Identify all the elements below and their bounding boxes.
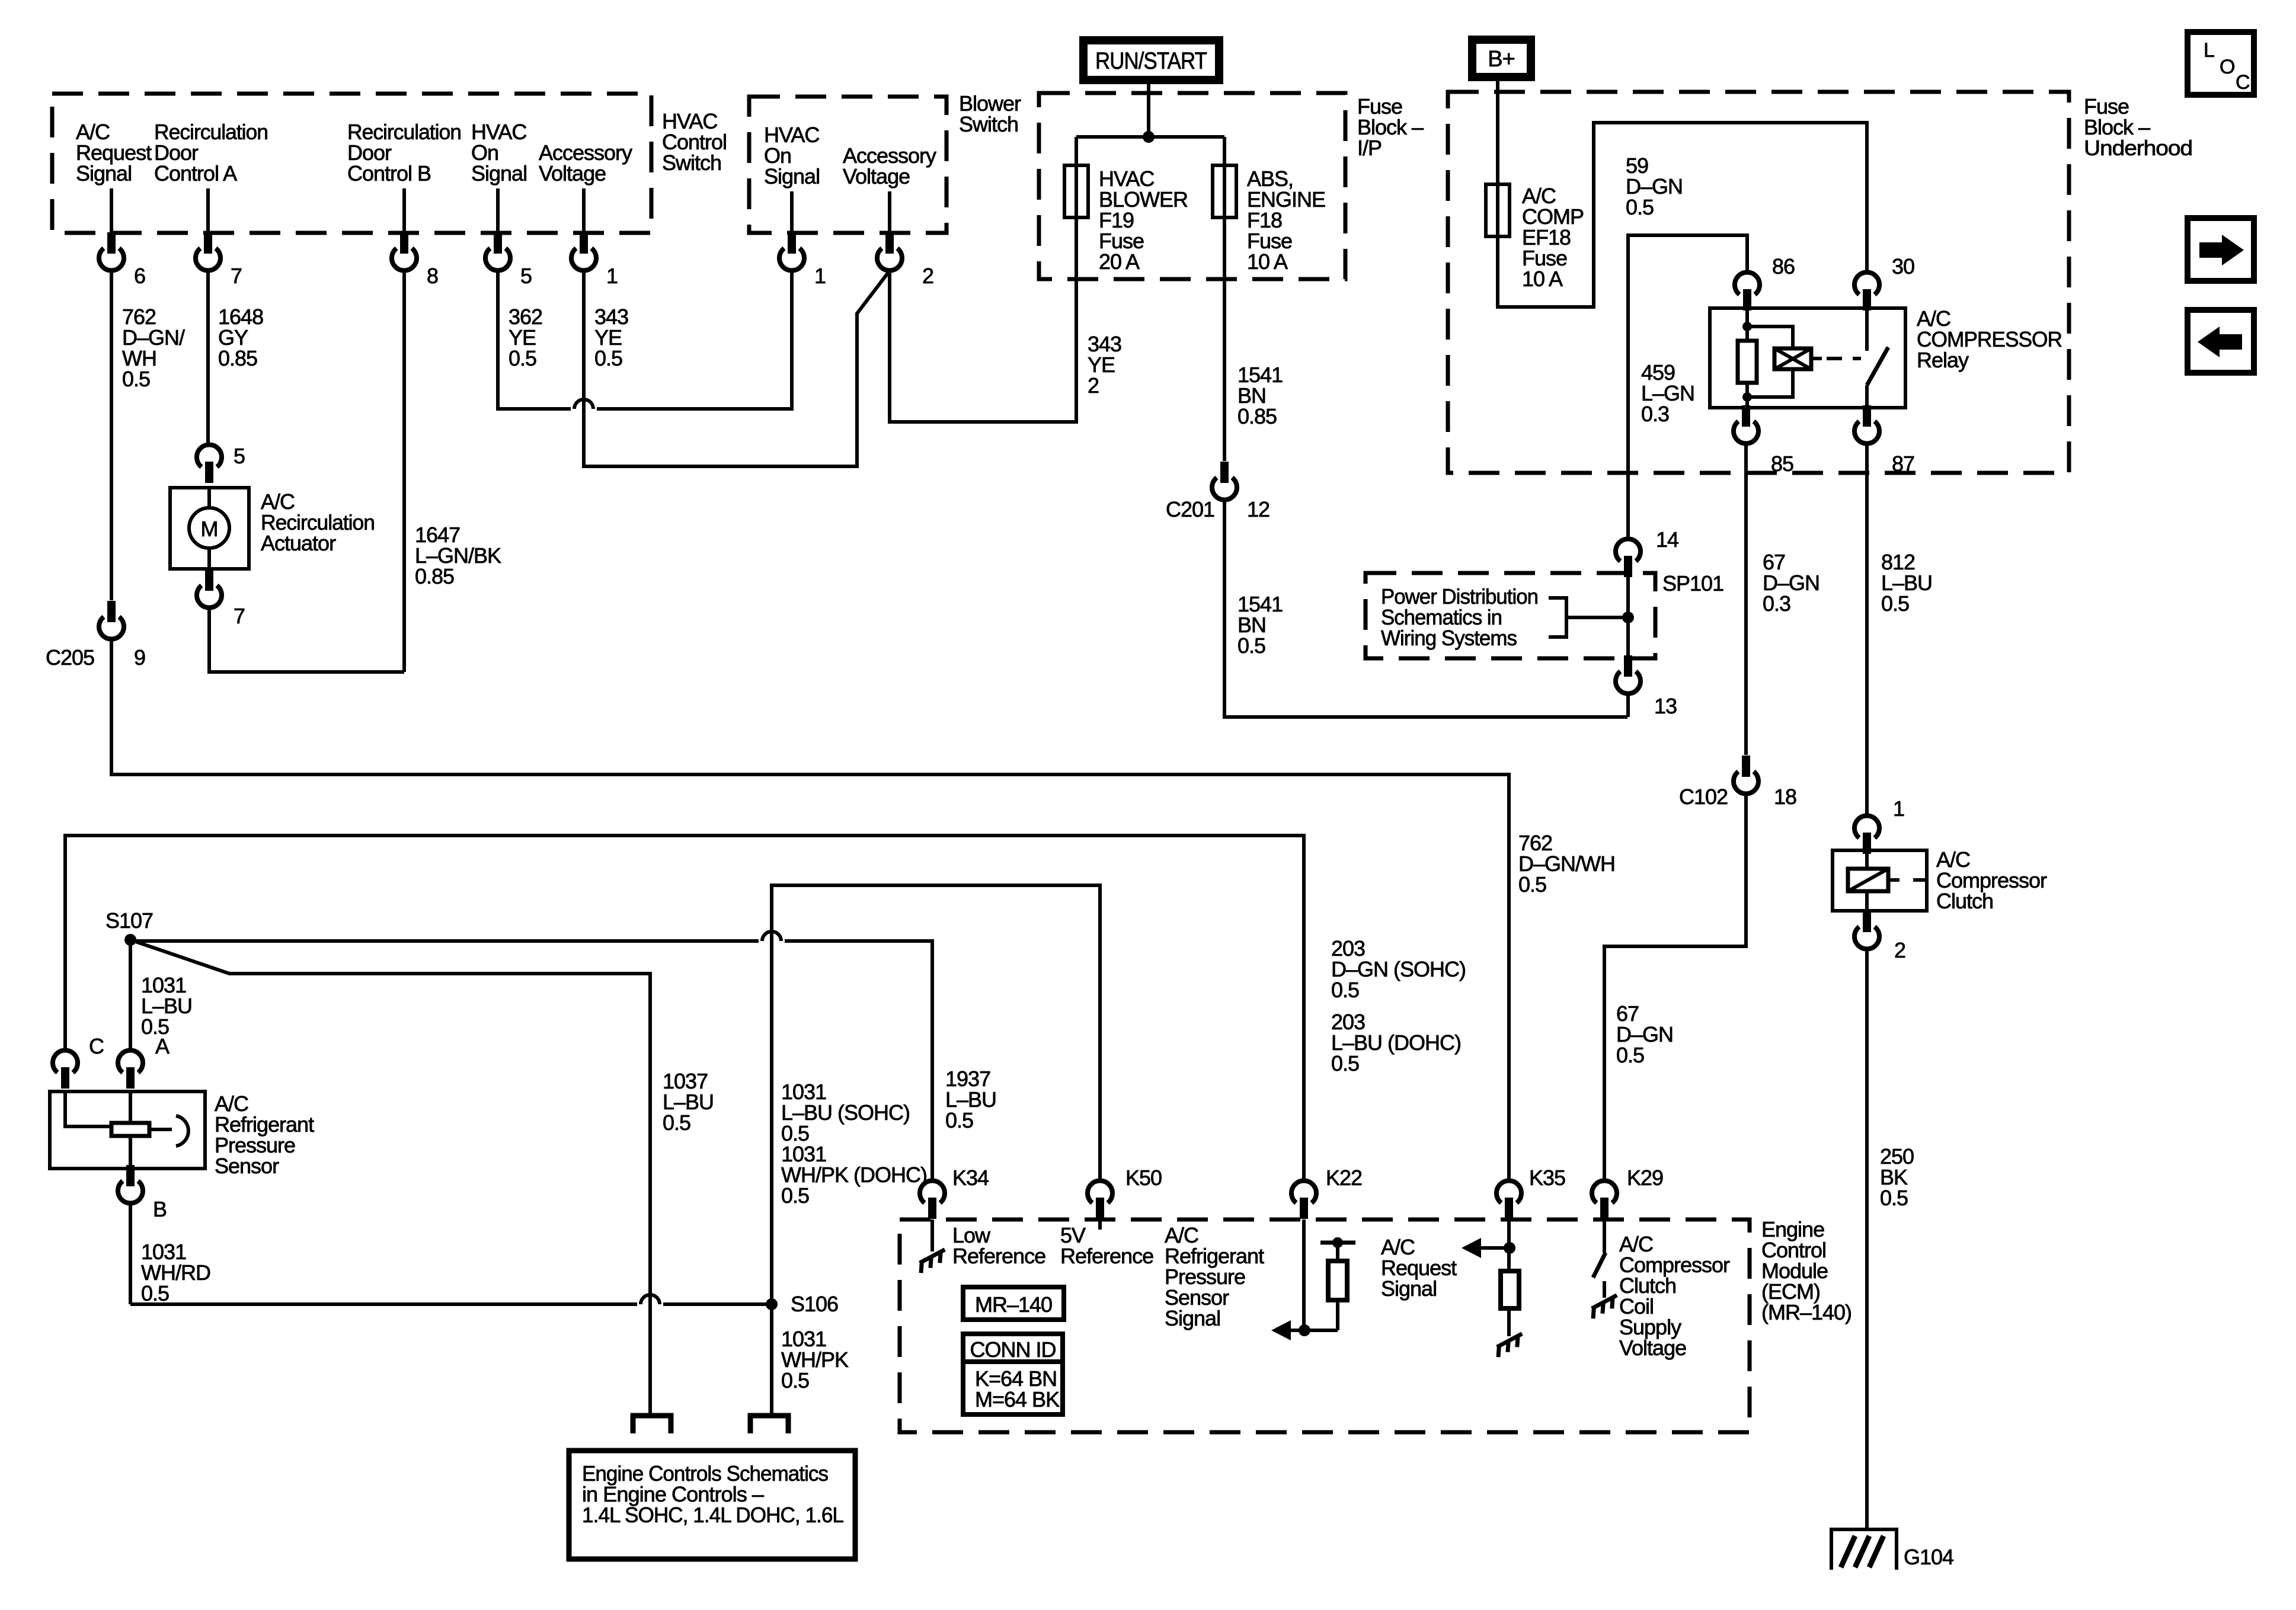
- wire 362: pin5 to blower pin1: [498, 271, 792, 409]
- wire through SP101 box: [1626, 573, 1630, 658]
- connector pin 7: [196, 232, 242, 288]
- svg-text:Control B: Control B: [347, 161, 431, 185]
- svg-text:0.5: 0.5: [1616, 1043, 1644, 1067]
- wire 343: pin1 to blower pin2: [584, 271, 890, 466]
- svg-text:RUN/START: RUN/START: [1095, 48, 1207, 74]
- blower pin 1 stub: [790, 191, 794, 232]
- component box A/C Compressor Clutch: [1833, 850, 1927, 911]
- connector blower pin 1: [779, 232, 826, 288]
- connector pin 1: [571, 232, 618, 288]
- relay coil: [1738, 311, 1757, 408]
- svg-text:1: 1: [606, 264, 618, 288]
- wire label 459 L-GN 0.3: [1641, 360, 1694, 426]
- label Engine Control Module (ECM) (MR-140): [1761, 1217, 1851, 1324]
- svg-text:0.5: 0.5: [663, 1110, 690, 1135]
- pin label HVAC On Signal (blower): [764, 123, 820, 188]
- connector K22: [1291, 1166, 1362, 1219]
- connector pin 5: [485, 232, 532, 288]
- svg-text:0.5: 0.5: [781, 1183, 809, 1208]
- wire label 203 L-BU (DOHC) 0.5: [1331, 1010, 1461, 1076]
- svg-text:5: 5: [234, 444, 245, 468]
- wire 67 D-GN 0.5: C102 to K29: [1604, 794, 1746, 1179]
- wire label 762 D-GN/WH 0.5: [122, 305, 185, 391]
- wire 1031 WH/RD: pinB to S106: [130, 1204, 772, 1304]
- svg-text:0.5: 0.5: [122, 367, 150, 391]
- connector pin 8: [392, 232, 438, 288]
- wire 762: pin6 down to C205: [110, 271, 113, 600]
- svg-text:30: 30: [1892, 254, 1914, 279]
- pin label HVAC On Signal: [471, 120, 527, 185]
- svg-text:Wiring Systems: Wiring Systems: [1381, 626, 1517, 650]
- label 5V Reference: [1060, 1223, 1153, 1268]
- ECM id box MR-140: [963, 1287, 1064, 1320]
- svg-text:Signal: Signal: [764, 164, 820, 188]
- svg-text:0.5: 0.5: [1881, 591, 1909, 616]
- connector C201 pin 12: [1166, 462, 1269, 521]
- wire pin8 down: [402, 271, 406, 672]
- wire label 362 YE 0.5: [509, 305, 542, 370]
- svg-text:K29: K29: [1627, 1166, 1663, 1190]
- wire 1541 BN 0.5: C201 to SP101: [1224, 500, 1627, 717]
- pin label A/C Request Signal: [76, 120, 152, 185]
- wire label 59 D-GN 0.5: [1626, 153, 1683, 219]
- label A/C Compressor Clutch Coil Supply Voltage: [1619, 1232, 1730, 1360]
- wire label 67 D-GN 0.3: [1763, 550, 1819, 616]
- ECM K35 request branch: [1462, 1219, 1527, 1357]
- svg-text:I/P: I/P: [1357, 136, 1382, 160]
- pin 1 stub: [582, 188, 586, 232]
- svg-text:C102: C102: [1679, 785, 1728, 809]
- fuse HVAC BLOWER F19 20A: [1064, 165, 1088, 217]
- svg-text:S106: S106: [791, 1292, 838, 1316]
- component box A/C Compressor Relay: [1710, 308, 1905, 408]
- connector K29: [1592, 1166, 1663, 1219]
- ECM low reference ground: [917, 1219, 949, 1273]
- sensor internal circuit: [65, 1092, 188, 1169]
- svg-text:Signal: Signal: [1165, 1306, 1220, 1330]
- wire label 1037 L-BU 0.5: [663, 1069, 714, 1135]
- svg-text:Sensor: Sensor: [215, 1154, 279, 1178]
- connector relay pin 85: [1734, 405, 1793, 476]
- wire label 1031 L-BU 0.5: [141, 973, 192, 1039]
- svg-text:Voltage: Voltage: [1619, 1336, 1686, 1360]
- pin label Accessory Voltage: [539, 140, 632, 185]
- ECM 5V reference stub: [1098, 1219, 1102, 1230]
- svg-text:0.3: 0.3: [1641, 402, 1669, 426]
- svg-text:K50: K50: [1125, 1166, 1162, 1190]
- svg-text:0.5: 0.5: [1331, 978, 1359, 1002]
- component box Power Distribution (dashed): [1366, 573, 1655, 658]
- svg-text:1: 1: [814, 264, 826, 288]
- svg-text:0.5: 0.5: [1237, 633, 1265, 658]
- splice bracket: [1549, 598, 1628, 637]
- wire label 250 BK 0.5: [1880, 1144, 1914, 1210]
- svg-text:0.5: 0.5: [781, 1368, 809, 1393]
- wire 1647: actuator pin7 to pin8 wire: [209, 608, 404, 672]
- pin 6 stub: [110, 188, 113, 232]
- connector C205 pin 9: [46, 601, 145, 670]
- svg-text:C201: C201: [1166, 497, 1214, 521]
- svg-text:Control A: Control A: [154, 161, 237, 185]
- svg-text:K34: K34: [952, 1166, 989, 1190]
- blower pin 2 stub: [888, 191, 891, 232]
- terminal to engine controls (1037): [633, 1416, 671, 1433]
- svg-text:Switch: Switch: [662, 151, 721, 175]
- svg-text:Signal: Signal: [76, 161, 132, 185]
- svg-text:O: O: [2220, 56, 2234, 78]
- actuator motor circle M: [189, 508, 229, 548]
- svg-text:S107: S107: [105, 908, 153, 933]
- svg-text:0.3: 0.3: [1763, 591, 1790, 616]
- wire label 1541 BN 0.85: [1237, 363, 1283, 428]
- wire label 762 D-GN/WH 0.5 (right): [1518, 831, 1615, 897]
- wire SP101 pin13 to 1541 horizontal: [1626, 694, 1630, 717]
- fuse A/C COMP EF18 10A: [1486, 184, 1510, 236]
- connector clutch pin 2: [1854, 911, 1905, 962]
- wire 812: relay87 to clutch: [1865, 444, 1869, 814]
- node S107: [105, 908, 153, 946]
- svg-text:Signal: Signal: [471, 161, 527, 185]
- wire pinC to K22 run: [65, 836, 1304, 1179]
- svg-text:2: 2: [1894, 938, 1905, 962]
- ECM K29 clutch driver switch: [1589, 1219, 1622, 1318]
- ECM CONN ID box: [963, 1334, 1063, 1414]
- label Fuse Block - Underhood: [2084, 94, 2192, 160]
- connector SP101 pin 14: [1616, 527, 1678, 577]
- wire label 1647 L-GN/BK 0.85: [415, 523, 501, 588]
- component box Engine Control Module ECM (dashed): [900, 1219, 1750, 1432]
- connector sensor pin C: [53, 1034, 104, 1089]
- svg-text:C: C: [2236, 71, 2250, 94]
- fuse ABS ENGINE F18 10A: [1213, 165, 1236, 217]
- svg-text:G104: G104: [1904, 1545, 1953, 1569]
- label Fuse Block - I/P: [1357, 94, 1424, 160]
- svg-text:7: 7: [234, 604, 245, 628]
- svg-text:B: B: [153, 1197, 167, 1221]
- svg-text:6: 6: [134, 264, 145, 288]
- pin label Recirculation Door Control B: [347, 120, 461, 185]
- svg-text:20 A: 20 A: [1099, 249, 1140, 274]
- svg-text:0.5: 0.5: [1880, 1186, 1908, 1210]
- connector SP101 pin 13: [1616, 655, 1677, 718]
- svg-text:86: 86: [1772, 254, 1795, 279]
- connector clutch pin 1: [1854, 796, 1904, 854]
- wire label 1541 BN 0.5: [1237, 592, 1283, 658]
- wire S106 up to K50 run: [772, 885, 1100, 1304]
- wire 762 long: C205 right to K35 drop: [111, 639, 1509, 1179]
- label Low Reference: [952, 1223, 1045, 1268]
- connector relay pin 87: [1854, 405, 1914, 476]
- svg-text:L: L: [2204, 39, 2214, 62]
- wire label 1937 L-BU 0.5: [945, 1067, 996, 1132]
- svg-text:0.5: 0.5: [1331, 1051, 1359, 1076]
- wire 250 BK: clutch to G104: [1865, 949, 1869, 1529]
- label A/C Refrigerant Pressure Sensor Signal: [1165, 1223, 1264, 1330]
- label A/C COMPRESSOR Relay: [1917, 306, 2062, 372]
- svg-text:0.85: 0.85: [1237, 404, 1277, 428]
- label Blower Switch: [959, 91, 1021, 136]
- wire SP101 pin14 entry: [0, 0, 1, 1]
- pin 8 stub: [402, 188, 406, 232]
- svg-text:Switch: Switch: [959, 112, 1018, 136]
- connector K50: [1088, 1166, 1162, 1219]
- svg-text:10 A: 10 A: [1522, 267, 1563, 291]
- svg-text:C205: C205: [46, 645, 94, 670]
- svg-text:5: 5: [520, 264, 532, 288]
- pin 7 stub: [206, 188, 210, 232]
- wire RUN/START feed: [1147, 83, 1150, 137]
- label HVAC Control Switch: [662, 109, 727, 175]
- node fuse feed junction: [1143, 131, 1155, 143]
- label A/C Compressor Clutch: [1936, 847, 2047, 913]
- clutch coil symbol: [1848, 850, 1927, 911]
- svg-text:K22: K22: [1326, 1166, 1362, 1190]
- svg-text:0.5: 0.5: [1518, 872, 1546, 897]
- label A/C Refrigerant Pressure Sensor: [215, 1092, 314, 1178]
- svg-text:8: 8: [427, 264, 438, 288]
- label Power Distribution Schematics in Wiring Systems: [1381, 584, 1538, 650]
- svg-text:0.5: 0.5: [141, 1281, 169, 1305]
- wire fuse feed split: [1076, 137, 1224, 165]
- wire label 343 YE 0.5: [594, 305, 628, 370]
- wire 67 D-GN 0.3: relay85 to C102: [1744, 444, 1748, 755]
- connector pin 6: [99, 232, 145, 288]
- svg-text:Relay: Relay: [1917, 348, 1969, 372]
- ECM K22 comparator branch: [1271, 1219, 1355, 1340]
- wire label 1648 GY 0.85: [218, 305, 263, 370]
- svg-text:87: 87: [1892, 452, 1914, 476]
- svg-text:A: A: [155, 1034, 170, 1058]
- svg-text:1.4L SOHC, 1.4L DOHC, 1.6L: 1.4L SOHC, 1.4L DOHC, 1.6L: [582, 1503, 843, 1527]
- wire S107 to K34 run: [130, 932, 932, 1179]
- wire label 1031 WH/RD 0.5: [141, 1240, 210, 1305]
- svg-text:CONN ID: CONN ID: [970, 1337, 1056, 1362]
- svg-text:18: 18: [1774, 785, 1796, 809]
- svg-text:0.85: 0.85: [218, 346, 257, 370]
- wire label 203 D-GN (SOHC) 0.5: [1331, 936, 1466, 1002]
- wire label 343 YE 2: [1088, 332, 1121, 398]
- pin label Recirculation Door Control A: [154, 120, 268, 185]
- connector K35: [1496, 1166, 1565, 1219]
- ground G104: [1831, 1529, 1953, 1570]
- wire label 1031 L-BU (SOHC)/(DOHC): [781, 1080, 927, 1208]
- svg-text:12: 12: [1247, 497, 1269, 521]
- component box Fuse Block - I/P (dashed): [1039, 93, 1345, 279]
- wire label 812 L-BU 0.5: [1881, 550, 1932, 616]
- relay dashed actuate link: [1827, 357, 1861, 360]
- wire 459: relay pin86 up-left to SP101: [1628, 235, 1747, 537]
- svg-text:2: 2: [1088, 373, 1099, 398]
- connector blower pin 2: [877, 232, 933, 288]
- relay coil branch with valve symbol: [1747, 327, 1822, 397]
- svg-text:0.85: 0.85: [415, 564, 454, 588]
- label HVAC BLOWER F19 Fuse 20 A: [1099, 167, 1188, 274]
- svg-text:Voltage: Voltage: [539, 161, 606, 185]
- component box Blower Switch (dashed): [749, 97, 946, 233]
- connector actuator pin 7: [197, 569, 245, 628]
- svg-text:Voltage: Voltage: [843, 164, 910, 188]
- wire 343 YE 2: blower pin2 to fuse F19: [890, 217, 1076, 422]
- connector relay pin 86: [1735, 254, 1795, 311]
- label A/C Recirculation Actuator: [261, 489, 375, 555]
- svg-text:K35: K35: [1529, 1166, 1565, 1190]
- wire 1541: F18 to C201: [1223, 217, 1226, 461]
- actuator internal wires: [207, 488, 211, 569]
- icon LOC box: [2188, 32, 2254, 95]
- connector C102 pin 18: [1679, 756, 1796, 809]
- svg-text:14: 14: [1656, 527, 1678, 552]
- pin label Accessory Voltage (blower): [843, 143, 936, 188]
- svg-text:C: C: [89, 1034, 104, 1058]
- svg-text:0.5: 0.5: [945, 1108, 973, 1132]
- svg-text:SP101: SP101: [1662, 571, 1723, 596]
- reference box Engine Controls Schematics: [569, 1451, 855, 1559]
- wire B+ to fuse EF18: [1496, 77, 1499, 184]
- svg-text:M=64 BK: M=64 BK: [975, 1387, 1060, 1411]
- svg-text:0.5: 0.5: [509, 346, 536, 370]
- node SP101: [1622, 571, 1723, 623]
- component box HVAC Control Switch (dashed): [52, 94, 651, 233]
- svg-text:85: 85: [1771, 452, 1793, 476]
- icon arrow right box: [2188, 218, 2254, 281]
- connector sensor pin A: [118, 1034, 170, 1089]
- svg-text:Reference: Reference: [1060, 1244, 1153, 1268]
- svg-text:0.5: 0.5: [1626, 195, 1654, 219]
- wire label 1031 WH/PK 0.5: [781, 1327, 849, 1393]
- component box A/C Refrigerant Pressure Sensor: [50, 1092, 205, 1169]
- svg-text:Signal: Signal: [1381, 1276, 1437, 1301]
- svg-text:Reference: Reference: [952, 1244, 1045, 1268]
- svg-text:MR–140: MR–140: [975, 1292, 1052, 1317]
- component A/C Recirculation Actuator box: [170, 488, 249, 569]
- connector K34: [920, 1166, 989, 1219]
- component box Fuse Block - Underhood (dashed): [1448, 92, 2069, 473]
- svg-text:(MR–140): (MR–140): [1761, 1300, 1851, 1324]
- svg-text:2: 2: [922, 264, 933, 288]
- label A/C Request Signal: [1381, 1235, 1457, 1301]
- relay switch contact: [1867, 311, 1888, 408]
- connector actuator pin 5: [197, 444, 245, 483]
- svg-text:10 A: 10 A: [1247, 249, 1288, 274]
- connector relay pin 30: [1854, 254, 1914, 311]
- power feed box RUN/START: [1083, 40, 1219, 80]
- svg-text:Clutch: Clutch: [1936, 889, 1993, 913]
- svg-text:1: 1: [1893, 796, 1904, 821]
- svg-text:9: 9: [134, 645, 145, 670]
- wire label 67 D-GN 0.5: [1616, 1001, 1673, 1067]
- wire S106 down to terminal: [770, 1304, 773, 1416]
- label ABS ENGINE F18 Fuse 10 A: [1247, 167, 1325, 274]
- wire 1648: pin7 to actuator: [206, 271, 210, 444]
- svg-text:7: 7: [231, 264, 242, 288]
- wire 59 D-GN: EF18 to relay pin30: [1498, 123, 1867, 307]
- terminal to engine controls (1031): [750, 1416, 788, 1433]
- label Engine Controls Schematics: [582, 1461, 843, 1527]
- label A/C COMP EF18 Fuse 10 A: [1522, 184, 1584, 291]
- power feed box B+: [1472, 40, 1531, 77]
- pin 5 stub: [496, 188, 500, 232]
- svg-text:0.5: 0.5: [594, 346, 622, 370]
- icon arrow left box: [2188, 310, 2254, 373]
- wire S107 diagonal to 1037 run: [130, 940, 650, 1416]
- svg-text:Underhood: Underhood: [2084, 136, 2192, 160]
- svg-text:Actuator: Actuator: [261, 531, 336, 555]
- svg-text:M: M: [201, 517, 218, 541]
- svg-text:13: 13: [1654, 694, 1677, 718]
- svg-text:B+: B+: [1488, 47, 1515, 72]
- node S106: [766, 1292, 838, 1316]
- connector sensor pin B: [118, 1165, 167, 1221]
